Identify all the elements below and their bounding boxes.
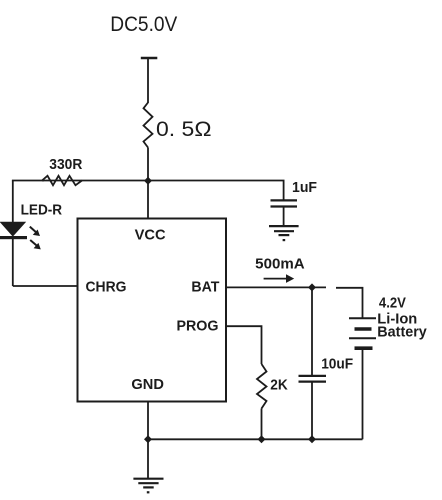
svg-text:Battery: Battery xyxy=(377,323,427,340)
wire 1uF to ground xyxy=(283,207,285,226)
svg-text:0. 5Ω: 0. 5Ω xyxy=(156,118,212,141)
wire LED cathode down xyxy=(12,239,14,286)
arrow 500mA shaft xyxy=(264,278,287,280)
ground main line1 xyxy=(133,478,163,480)
resistor 330R xyxy=(42,176,82,185)
battery BT1 plate3 xyxy=(349,337,376,339)
wire bottom rail xyxy=(148,438,363,440)
junction BAT node xyxy=(308,283,316,291)
ground 1uF line1 xyxy=(269,225,299,227)
capacitor 10uF plate1 xyxy=(299,375,327,377)
svg-text:VCC: VCC xyxy=(135,227,166,244)
ground 1uF line3 xyxy=(279,234,290,236)
ground main line3 xyxy=(143,486,154,488)
LED D1 triangle xyxy=(0,222,26,237)
battery BT1 plate2 xyxy=(355,327,372,331)
battery BT1 plate4 xyxy=(355,346,373,350)
svg-text:LED-R: LED-R xyxy=(21,202,63,219)
wire 2K to bottom rail xyxy=(261,409,263,440)
svg-text:DC5.0V: DC5.0V xyxy=(110,13,177,36)
node DC5.0V power terminal xyxy=(141,57,158,59)
svg-text:500mA: 500mA xyxy=(255,255,305,272)
ground 1uF dot xyxy=(283,239,286,241)
wire ground stem xyxy=(147,439,149,478)
wire battery negative down xyxy=(362,348,364,439)
wire terminal to R 0.5ohm xyxy=(147,58,149,103)
ground main line2 xyxy=(138,482,158,484)
resistor 2K xyxy=(257,364,267,409)
wire 10uF to bottom rail xyxy=(311,382,313,440)
battery BT1 plate1 xyxy=(349,317,376,319)
LED D1 cathode bar xyxy=(0,236,27,239)
svg-text:330R: 330R xyxy=(49,156,82,173)
wire left corner down to LED xyxy=(12,181,14,223)
ground main dot xyxy=(147,491,150,493)
svg-text:BAT: BAT xyxy=(191,279,219,296)
junction 2K bottom xyxy=(258,435,266,443)
arrow 500mA head xyxy=(286,274,294,283)
wire BAT junction down to 10uF xyxy=(311,287,313,375)
wire VCC rail right segment to 1uF xyxy=(148,181,284,201)
svg-text:4.2V: 4.2V xyxy=(379,295,406,312)
svg-text:PROG: PROG xyxy=(177,317,219,334)
capacitor 10uF plate2 xyxy=(299,381,327,383)
svg-text:1uF: 1uF xyxy=(292,179,317,196)
op-amp U1 charger IC body xyxy=(78,219,227,402)
wire BAT to battery xyxy=(336,288,363,319)
svg-text:2K: 2K xyxy=(270,377,288,394)
wire R0.5 to VCC rail xyxy=(147,148,149,182)
wire PROG xyxy=(226,326,262,364)
junction 10uF bottom xyxy=(308,435,316,443)
wire BAT xyxy=(226,286,326,288)
junction VCC rail xyxy=(144,177,152,185)
wire VCC pin xyxy=(147,181,149,219)
svg-text:10uF: 10uF xyxy=(321,355,353,372)
svg-text:CHRG: CHRG xyxy=(86,279,127,296)
svg-text:GND: GND xyxy=(131,376,164,393)
ground 1uF line2 xyxy=(274,230,294,232)
LED D1 light arrow1 xyxy=(30,227,40,236)
LED D1 light arrow2 xyxy=(30,240,41,249)
wire GND pin down xyxy=(147,402,149,440)
corner joint xyxy=(12,180,44,182)
wire VCC rail left segment xyxy=(42,180,148,182)
capacitor 1uF plate2 xyxy=(271,205,298,207)
resistor 0.5ohm xyxy=(144,103,153,148)
wire CHRG xyxy=(13,285,78,287)
capacitor 1uF plate1 xyxy=(271,199,298,201)
junction GND node xyxy=(144,435,152,443)
